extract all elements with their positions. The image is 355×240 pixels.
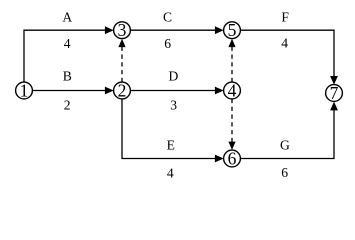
node 1 (16, 80, 33, 100)
svg-text:5: 5 (228, 20, 237, 40)
node 2 (114, 80, 131, 100)
svg-text:G: G (280, 138, 290, 153)
activity A arrow (1 to 3) (24, 26, 114, 82)
svg-text:6: 6 (164, 36, 171, 51)
svg-text:6: 6 (228, 148, 237, 168)
dummy dashed arrow 4 to 6 (228, 99, 235, 150)
node 6 (224, 148, 241, 168)
svg-text:1: 1 (20, 80, 29, 100)
svg-text:4: 4 (228, 80, 237, 100)
activity C arrow (3 to 5) (130, 26, 223, 34)
svg-text:2: 2 (64, 97, 71, 112)
svg-text:4: 4 (64, 36, 71, 51)
dummy dashed arrow 4 to 5 (228, 39, 235, 82)
node 5 (224, 20, 241, 40)
activity F arrow (5 to 7) (240, 30, 338, 85)
svg-text:6: 6 (281, 165, 288, 180)
svg-text:3: 3 (170, 97, 177, 112)
node 3 (114, 20, 131, 40)
svg-text:2: 2 (118, 80, 127, 100)
svg-text:C: C (163, 9, 172, 24)
node 4 (224, 80, 241, 100)
svg-text:E: E (167, 138, 175, 153)
dummy dashed arrow 2 to 3 (118, 39, 125, 82)
svg-text:B: B (63, 69, 72, 84)
svg-text:4: 4 (281, 35, 288, 50)
activity B arrow (1 to 2) (32, 87, 113, 95)
node 7 (326, 83, 343, 103)
activity D arrow (2 to 4) (130, 87, 223, 95)
svg-text:A: A (62, 9, 72, 24)
svg-text:4: 4 (167, 165, 174, 180)
svg-text:7: 7 (330, 83, 339, 103)
activity G arrow (6 to 7) (240, 102, 338, 159)
svg-text:3: 3 (118, 20, 127, 40)
svg-text:D: D (168, 69, 178, 84)
activity E arrow (2 to 6) (122, 99, 224, 162)
svg-text:F: F (281, 9, 289, 24)
